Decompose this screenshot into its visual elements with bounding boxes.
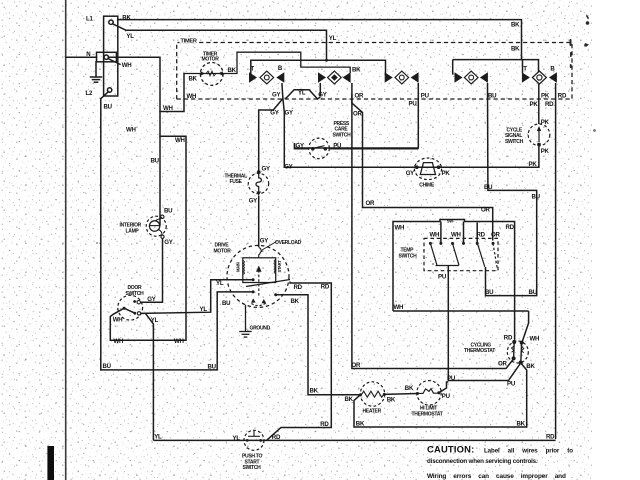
svg-text:WH: WH bbox=[163, 105, 173, 112]
wire BU from L2 bbox=[101, 92, 108, 370]
svg-text:GROUND: GROUND bbox=[250, 325, 271, 331]
svg-text:PK: PK bbox=[541, 148, 550, 155]
wire YL bus bbox=[126, 30, 327, 60]
wire BK bus to contacts 4,5 bbox=[453, 60, 539, 73]
wire GY lamp to door switch bbox=[141, 238, 163, 302]
wire riser contact4 bbox=[452, 60, 454, 75]
svg-text:PU: PU bbox=[438, 274, 447, 281]
svg-text:CHIME: CHIME bbox=[419, 183, 435, 189]
terminal L2 bbox=[107, 88, 111, 92]
wire GY fuse to drive motor bbox=[258, 196, 260, 248]
svg-text:WH: WH bbox=[175, 137, 185, 144]
wire OR long drop to thermostat bbox=[352, 94, 514, 369]
svg-text:BK: BK bbox=[310, 388, 319, 395]
svg-text:BU: BU bbox=[529, 289, 538, 296]
svg-text:BU: BU bbox=[103, 363, 112, 370]
svg-text:BK: BK bbox=[356, 420, 365, 427]
chime A1 bbox=[414, 158, 441, 180]
svg-text:BK: BK bbox=[526, 363, 535, 370]
timer dashed enclosure bbox=[177, 43, 572, 100]
wire GY riser to contact2 bbox=[319, 83, 321, 97]
wire GY to press care switch bbox=[295, 143, 309, 149]
svg-text:WH: WH bbox=[430, 232, 440, 239]
svg-text:OR: OR bbox=[353, 110, 362, 117]
terminal L1 bbox=[109, 20, 113, 24]
svg-text:PK: PK bbox=[442, 170, 451, 177]
svg-text:GY: GY bbox=[147, 296, 155, 303]
svg-text:BK: BK bbox=[228, 67, 237, 74]
node YL junction bbox=[325, 59, 328, 62]
wire heater to hi-limit bbox=[384, 393, 417, 396]
wire WH from N bbox=[108, 59, 120, 65]
timer contact 2 bbox=[318, 71, 351, 84]
wire WH bottom edge bbox=[393, 310, 529, 312]
svg-text:OR: OR bbox=[366, 200, 375, 207]
svg-text:L1: L1 bbox=[86, 16, 93, 23]
svg-text:MOTOR: MOTOR bbox=[202, 57, 220, 63]
svg-text:GY: GY bbox=[272, 92, 280, 99]
svg-text:BU: BU bbox=[488, 92, 497, 99]
terminal block bbox=[104, 16, 118, 96]
svg-text:WH: WH bbox=[530, 336, 540, 343]
svg-text:BU: BU bbox=[485, 289, 494, 296]
svg-text:BU: BU bbox=[164, 208, 173, 215]
wire RD top edge bbox=[479, 222, 515, 342]
temp switch assembly bbox=[393, 220, 529, 342]
svg-text:THERMOSTAT: THERMOSTAT bbox=[464, 348, 495, 354]
svg-text:SWITCH: SWITCH bbox=[333, 132, 352, 138]
wire WH pentagon to thermostat bbox=[522, 311, 528, 342]
svg-text:WH: WH bbox=[113, 317, 123, 324]
wire WH main run bbox=[109, 57, 161, 225]
svg-text:SW: SW bbox=[447, 218, 453, 223]
wire GY to thermal fuse bbox=[259, 99, 283, 172]
timer contact 3 bbox=[385, 71, 419, 84]
cycle signal switch S5 bbox=[528, 124, 550, 146]
svg-text:BK: BK bbox=[352, 67, 361, 74]
wire PU hi-limit to thermostat bbox=[439, 382, 449, 393]
svg-text:PU: PU bbox=[333, 143, 342, 150]
svg-text:SWITCH: SWITCH bbox=[505, 139, 524, 145]
svg-text:SWITCH: SWITCH bbox=[399, 253, 418, 259]
svg-text:START: START bbox=[277, 260, 282, 273]
svg-text:WH: WH bbox=[395, 224, 405, 231]
heater E1 bbox=[359, 382, 386, 406]
svg-text:RD: RD bbox=[477, 232, 486, 239]
svg-text:RD: RD bbox=[558, 92, 567, 99]
wire WH timer-motor branch bbox=[160, 74, 184, 112]
node GY split bbox=[259, 99, 539, 172]
cycling thermostat TH1 bbox=[507, 341, 528, 365]
svg-text:PU: PU bbox=[409, 101, 418, 108]
svg-text:WH: WH bbox=[174, 338, 184, 345]
temp switch dashed case bbox=[424, 238, 498, 270]
svg-text:RD: RD bbox=[504, 335, 513, 342]
wire GY riser from contact1 bbox=[282, 83, 283, 99]
temp switch levers bbox=[430, 243, 497, 268]
svg-text:YL: YL bbox=[154, 433, 162, 440]
svg-text:GY: GY bbox=[262, 166, 270, 173]
wire N feed bbox=[66, 56, 97, 58]
timer contact 5 bbox=[522, 71, 557, 84]
interior lamp DS1 bbox=[146, 215, 166, 238]
wire OR drop from contact2 bbox=[352, 83, 493, 241]
svg-text:BK: BK bbox=[291, 298, 300, 305]
wire PK drop from contact5 bbox=[538, 84, 540, 124]
svg-text:OVERLOAD: OVERLOAD bbox=[275, 240, 302, 246]
ground lead bbox=[239, 305, 251, 337]
svg-text:BK: BK bbox=[387, 397, 396, 404]
svg-text:YL: YL bbox=[298, 89, 306, 96]
svg-text:Label all wires prior to: Label all wires prior to bbox=[484, 448, 573, 455]
svg-text:BK: BK bbox=[517, 421, 526, 428]
wire BU bottom run to motor bbox=[101, 292, 253, 370]
temp switch contacts bbox=[429, 242, 495, 245]
svg-text:BK: BK bbox=[511, 22, 520, 29]
svg-text:BU: BU bbox=[151, 158, 160, 165]
svg-text:N: N bbox=[86, 51, 90, 58]
svg-text:FUSE: FUSE bbox=[230, 179, 243, 185]
wire RD motor to push-to-start bbox=[267, 282, 332, 441]
svg-text:PK: PK bbox=[529, 161, 538, 168]
svg-text:WH: WH bbox=[114, 338, 124, 345]
push to start switch S2 bbox=[244, 430, 264, 450]
wire YL door to motor bbox=[141, 280, 254, 314]
svg-text:RD: RD bbox=[320, 421, 329, 428]
svg-text:L2: L2 bbox=[86, 90, 93, 97]
svg-text:WH: WH bbox=[451, 232, 461, 239]
wire bottom YL/RD run bbox=[153, 439, 555, 441]
terminal N block bbox=[97, 52, 117, 62]
drive motor M2 bbox=[227, 242, 290, 308]
svg-text:BU: BU bbox=[484, 184, 493, 191]
svg-text:GY: GY bbox=[284, 163, 292, 170]
wire WH branch to door switch bbox=[160, 136, 186, 340]
svg-text:THERMOSTAT: THERMOSTAT bbox=[412, 411, 443, 417]
svg-text:PU: PU bbox=[442, 393, 451, 400]
svg-text:BU: BU bbox=[222, 300, 231, 307]
svg-text:WH: WH bbox=[122, 62, 132, 69]
timer contact 4 bbox=[455, 71, 488, 84]
wire PU common drop bbox=[448, 266, 520, 381]
svg-text:PK: PK bbox=[541, 92, 550, 99]
svg-text:MOTOR: MOTOR bbox=[214, 248, 232, 254]
wire YL tap from L1 bbox=[113, 24, 127, 30]
svg-text:YL: YL bbox=[216, 280, 224, 287]
svg-text:PU: PU bbox=[507, 381, 516, 388]
svg-text:GY: GY bbox=[260, 237, 268, 244]
svg-text:TIMER: TIMER bbox=[181, 38, 197, 44]
svg-text:BK: BK bbox=[122, 15, 131, 22]
svg-text:T: T bbox=[523, 65, 527, 72]
label TIMER bbox=[180, 37, 197, 43]
svg-text:YL: YL bbox=[329, 35, 337, 42]
hi-limit thermostat TH2 bbox=[416, 381, 441, 405]
svg-text:GY: GY bbox=[406, 170, 414, 177]
svg-text:OR: OR bbox=[498, 361, 507, 368]
wire BK motor to heater bbox=[277, 295, 361, 395]
svg-text:GY: GY bbox=[270, 110, 278, 117]
svg-text:RD: RD bbox=[321, 284, 330, 291]
svg-text:OR: OR bbox=[355, 92, 364, 99]
svg-text:SWITCH: SWITCH bbox=[243, 465, 262, 471]
svg-text:BK: BK bbox=[189, 75, 198, 82]
svg-text:RD: RD bbox=[546, 434, 555, 441]
thermal fuse F1 bbox=[248, 171, 268, 196]
svg-text:WH: WH bbox=[394, 304, 404, 311]
wire WH contact taps bbox=[440, 222, 442, 243]
terminal N bbox=[104, 55, 108, 59]
wire PU drop from contact3 bbox=[295, 83, 419, 148]
ground at N terminal bbox=[95, 62, 97, 77]
wire BU drop from contact4 bbox=[486, 83, 537, 296]
svg-text:SWITCH: SWITCH bbox=[126, 291, 145, 297]
timer motor M1 bbox=[184, 52, 350, 85]
svg-text:WH: WH bbox=[126, 127, 136, 134]
page margin rule bbox=[65, 0, 67, 480]
svg-text:GY: GY bbox=[296, 143, 304, 150]
door switch S1 bbox=[118, 295, 143, 320]
svg-text:RD: RD bbox=[506, 224, 515, 231]
wire YL drop to bottom bbox=[146, 313, 154, 440]
wire PU press care to contact3 bbox=[330, 148, 419, 150]
svg-text:MAIN: MAIN bbox=[236, 262, 241, 272]
wire YL bridge hump bbox=[285, 90, 320, 99]
timer contact 1 bbox=[249, 71, 284, 84]
svg-text:Wiring errors can cause improp: Wiring errors can cause improper and bbox=[427, 473, 566, 480]
svg-text:BK: BK bbox=[511, 46, 520, 53]
svg-text:BK: BK bbox=[405, 385, 414, 392]
wire RD drop from contact5 bbox=[555, 83, 557, 439]
wire BK thermostat to heater bbox=[354, 364, 527, 428]
wire T riser bbox=[251, 60, 386, 74]
svg-text:GY: GY bbox=[164, 239, 172, 246]
svg-text:GY: GY bbox=[249, 198, 257, 205]
svg-text:OR: OR bbox=[352, 362, 361, 369]
svg-text:GY: GY bbox=[285, 110, 293, 117]
svg-text:OR: OR bbox=[481, 206, 490, 213]
scan specks top right bbox=[96, 14, 596, 265]
press care switch S3 bbox=[309, 138, 330, 159]
svg-text:RD: RD bbox=[545, 101, 554, 108]
wire riser contact5 left bbox=[522, 60, 524, 73]
svg-text:CAUTION:: CAUTION: bbox=[427, 444, 474, 455]
svg-text:YL: YL bbox=[126, 33, 134, 40]
svg-text:HEATER: HEATER bbox=[363, 409, 382, 415]
wire RD contact tap bbox=[476, 223, 478, 243]
svg-text:OR: OR bbox=[491, 232, 500, 239]
wire WH bus frame bbox=[393, 220, 479, 312]
svg-text:LAMP: LAMP bbox=[126, 228, 140, 234]
svg-text:PK: PK bbox=[530, 101, 539, 108]
svg-text:disconnection when servicing c: disconnection when servicing controls. bbox=[427, 458, 538, 465]
wire WH door common bbox=[110, 308, 186, 340]
svg-text:BU: BU bbox=[532, 194, 541, 201]
svg-text:BU: BU bbox=[104, 104, 113, 111]
svg-text:PK: PK bbox=[541, 119, 550, 126]
svg-text:PU: PU bbox=[421, 92, 430, 99]
svg-text:BU: BU bbox=[208, 364, 217, 371]
sidebar tab (rotated text block) bbox=[47, 446, 54, 480]
wire GY to chime run bbox=[283, 99, 539, 168]
wire BK bus from L1 bbox=[118, 20, 522, 60]
